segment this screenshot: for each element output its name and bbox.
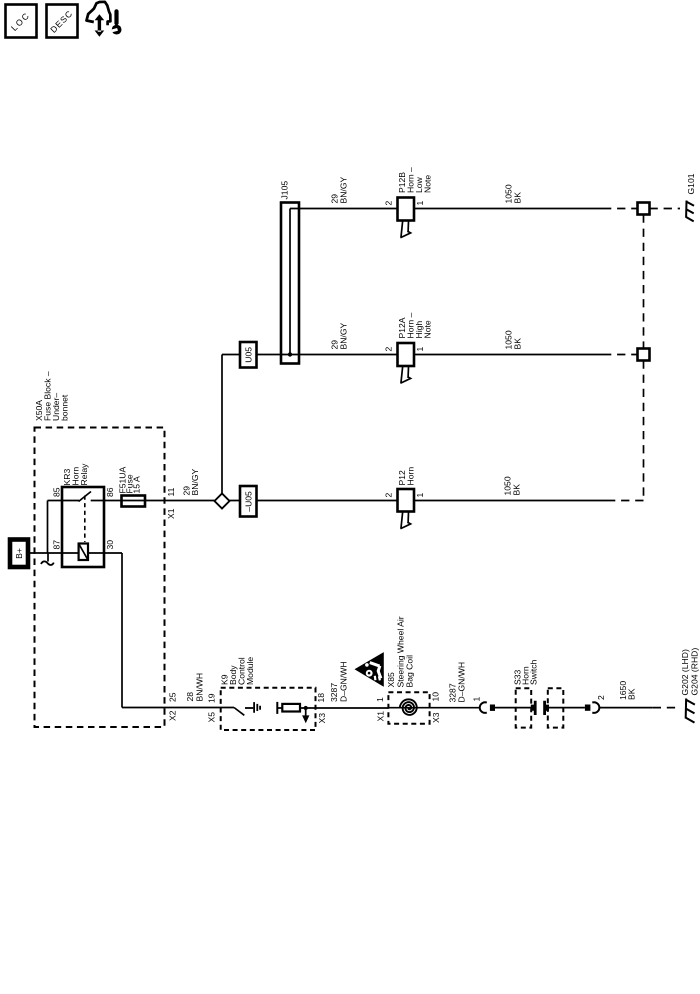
svg-text:BK: BK xyxy=(513,192,523,204)
svg-text:Note: Note xyxy=(423,175,433,193)
svg-text:Bag Coil: Bag Coil xyxy=(405,655,415,688)
svg-text:11: 11 xyxy=(166,487,176,496)
svg-text:B+: B+ xyxy=(14,548,24,559)
svg-text:G202 (LHD): G202 (LHD) xyxy=(680,649,690,695)
svg-text:2: 2 xyxy=(384,201,394,206)
svg-text:X2: X2 xyxy=(168,710,178,721)
svg-text:15 A: 15 A xyxy=(132,476,142,493)
svg-text:X1: X1 xyxy=(166,508,176,519)
svg-text:25: 25 xyxy=(168,692,178,702)
svg-text:J105: J105 xyxy=(280,181,290,200)
svg-text:1: 1 xyxy=(415,347,425,352)
svg-text:G204 (RHD): G204 (RHD) xyxy=(690,648,700,696)
svg-text:1: 1 xyxy=(415,493,425,498)
svg-text:18: 18 xyxy=(316,693,326,703)
svg-text:Note: Note xyxy=(423,320,433,338)
svg-text:BN/WH: BN/WH xyxy=(195,673,205,702)
svg-text:BN/GY: BN/GY xyxy=(339,322,349,349)
svg-text:G101: G101 xyxy=(686,173,696,194)
svg-text:3287: 3287 xyxy=(329,683,339,702)
svg-text:1: 1 xyxy=(472,697,482,702)
svg-text:2: 2 xyxy=(596,695,606,700)
svg-text:bonnet: bonnet xyxy=(60,394,70,421)
svg-text:Relay: Relay xyxy=(79,463,89,486)
svg-text:Switch: Switch xyxy=(529,659,539,685)
svg-text:85: 85 xyxy=(52,487,62,497)
svg-text:Module: Module xyxy=(245,657,255,685)
svg-text:U05: U05 xyxy=(243,347,253,363)
svg-text:X1: X1 xyxy=(376,711,386,722)
svg-text:BN/GY: BN/GY xyxy=(190,468,200,495)
svg-text:–U05: –U05 xyxy=(243,491,253,512)
svg-text:X3: X3 xyxy=(431,712,441,723)
svg-text:X5: X5 xyxy=(207,712,217,723)
svg-text:1: 1 xyxy=(415,201,425,206)
svg-text:X85: X85 xyxy=(386,672,396,688)
svg-text:D–GN/WH: D–GN/WH xyxy=(457,662,467,703)
svg-text:10: 10 xyxy=(431,692,441,702)
svg-text:28: 28 xyxy=(185,692,195,702)
svg-text:X3: X3 xyxy=(317,713,327,724)
svg-text:87: 87 xyxy=(52,540,62,550)
svg-text:2: 2 xyxy=(384,493,394,498)
svg-text:BN/GY: BN/GY xyxy=(339,176,349,203)
svg-text:BK: BK xyxy=(513,338,523,350)
svg-text:19: 19 xyxy=(207,693,217,703)
svg-text:30: 30 xyxy=(105,540,115,550)
svg-text:2: 2 xyxy=(384,347,394,352)
svg-text:86: 86 xyxy=(105,487,115,497)
svg-text:BK: BK xyxy=(627,688,637,700)
svg-text:BK: BK xyxy=(512,484,522,496)
svg-text:1: 1 xyxy=(375,697,385,702)
svg-text:Horn: Horn xyxy=(406,467,416,486)
svg-text:D–GN/WH: D–GN/WH xyxy=(339,661,349,702)
